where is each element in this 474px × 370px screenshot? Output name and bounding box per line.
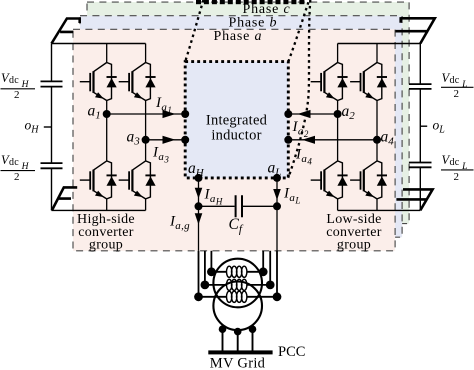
3D bus stub top-left <box>52 17 80 43</box>
svg-text:2: 2 <box>454 88 460 100</box>
3D bus stub bottom-left <box>52 187 77 210</box>
winding b terminal dots <box>201 281 210 290</box>
phase b box <box>80 16 402 238</box>
label VdcL/2 top <box>441 71 474 100</box>
node aL <box>273 174 281 182</box>
phase a box <box>73 29 395 251</box>
node a2 <box>334 110 342 118</box>
inductor 3D edge right lower <box>288 0 310 178</box>
arrow Ia4 <box>302 136 315 144</box>
wire a3 <box>146 139 186 141</box>
winding a coil <box>227 291 247 302</box>
low-side DC rail <box>419 44 421 211</box>
capacitor VdcH bottom <box>41 163 63 168</box>
IGBT Q2 top <box>119 63 156 101</box>
node aH <box>195 174 203 182</box>
low-side leg 2 wire <box>376 44 378 211</box>
winding c coil <box>227 266 247 277</box>
arrow Ia2 <box>298 110 311 118</box>
MV grid bar <box>208 350 272 354</box>
label VdcL/2 bottom <box>441 153 474 183</box>
grid wires <box>223 329 253 350</box>
IGBT Q6 top-right <box>350 63 387 101</box>
node a3 box terminal <box>181 136 189 144</box>
label VdcH/2 bottom <box>1 153 36 183</box>
arrow Ia3 <box>163 136 176 144</box>
wire phase c left <box>210 251 212 272</box>
3D bus stub bottom-right <box>396 189 432 210</box>
node oL tick <box>420 125 427 127</box>
winding c terminal dots <box>207 267 216 276</box>
low-side leg 1 wire <box>337 44 339 211</box>
node oH tick <box>44 126 52 128</box>
IGBT Q5 top <box>311 63 348 101</box>
arrow Ia1 <box>163 110 176 118</box>
svg-text:inductor: inductor <box>211 128 261 144</box>
wire Cf right <box>243 205 277 207</box>
integrated inductor box <box>185 62 288 178</box>
svg-text:2: 2 <box>14 171 20 183</box>
junction aH-Cf <box>195 202 203 210</box>
3D bus stub top-right <box>395 17 434 43</box>
high-side top rail <box>52 43 146 45</box>
node a2 box terminal <box>284 110 292 118</box>
grid connection dots <box>219 325 227 333</box>
wire phase b left <box>204 251 206 285</box>
high-side bottom rail <box>52 209 146 211</box>
inductor 3D edge left <box>185 0 203 62</box>
inductor 3D edge top row <box>196 0 304 4</box>
winding b leads <box>205 284 270 286</box>
svg-text:Phase a: Phase a <box>214 29 263 44</box>
winding a terminal dots <box>194 292 203 301</box>
wire aL down <box>276 178 278 251</box>
svg-text:group: group <box>89 238 123 253</box>
winding c leads <box>211 271 263 273</box>
capacitor VdcH top <box>41 81 63 86</box>
arrow Iag <box>195 213 203 224</box>
node a4 <box>373 136 381 144</box>
svg-text:PCC: PCC <box>278 344 305 360</box>
node a1 box terminal <box>181 110 189 118</box>
IGBT Q1 top-left <box>80 63 117 101</box>
svg-text:MV Grid: MV Grid <box>210 356 266 370</box>
wire aH down <box>198 178 200 251</box>
svg-text:2: 2 <box>14 89 20 101</box>
label VdcH/2 top <box>1 71 36 101</box>
capacitor VdcL bottom <box>409 163 432 168</box>
wire a2 <box>288 113 337 115</box>
wire Cf left <box>199 205 235 207</box>
IGBT Q4 bottom <box>119 161 156 199</box>
wire a1 <box>107 113 186 115</box>
capacitor Cf <box>236 195 242 217</box>
low-side top rail <box>338 43 421 45</box>
winding b coil <box>227 279 247 290</box>
svg-text:Integrated: Integrated <box>206 113 268 129</box>
node a3 <box>142 136 150 144</box>
IGBT Q3 bottom-left <box>80 161 117 199</box>
node a1 <box>103 110 111 118</box>
transformer primary circle <box>213 259 262 308</box>
high-side leg 1 wire <box>106 44 108 211</box>
arrow IaH <box>195 188 203 199</box>
capacitor VdcL top <box>409 84 432 89</box>
svg-text:2: 2 <box>454 171 460 183</box>
winding a leads <box>199 296 278 298</box>
low-side bottom rail <box>338 209 421 211</box>
arrow IaL <box>273 189 281 200</box>
high-side DC rail <box>51 44 53 211</box>
svg-text:group: group <box>337 238 371 253</box>
wire a4 <box>288 139 377 141</box>
node a4 box terminal <box>284 136 292 144</box>
wire phase c right <box>262 251 264 272</box>
transformer secondary circle <box>213 282 262 331</box>
IGBT Q7 bottom <box>311 161 348 199</box>
phase c box <box>87 2 409 224</box>
wire phase b right <box>269 251 271 285</box>
inductor 3D edge right upper <box>288 2 308 62</box>
IGBT Q8 bottom-right <box>350 161 387 199</box>
high-side leg 2 wire <box>145 44 147 211</box>
junction aL-Cf <box>273 202 281 210</box>
